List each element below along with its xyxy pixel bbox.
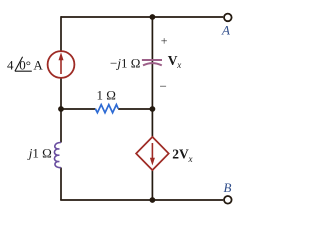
svg-text:2V: 2V	[172, 147, 189, 162]
resistor R1 zigzag	[95, 105, 118, 113]
wire bottom horizontal	[60, 199, 223, 201]
capacitor C1 bottom plate (curved)	[143, 63, 162, 65]
node junction middle-left	[58, 106, 64, 112]
node junction middle-right	[150, 106, 156, 112]
current source I1 arrow	[59, 52, 64, 74]
svg-text:1 Ω: 1 Ω	[97, 88, 116, 103]
wire left vertical middle	[60, 78, 62, 143]
svg-text:x: x	[176, 60, 181, 70]
label 4∠0° A	[7, 57, 43, 73]
wire middle horizontal	[61, 108, 152, 110]
capacitor C1 top plate	[142, 59, 162, 61]
node junction bottom	[150, 197, 156, 203]
svg-text:x: x	[188, 154, 193, 164]
svg-text:A: A	[221, 22, 230, 37]
wire top horizontal	[61, 16, 223, 18]
current source I1 circle	[48, 51, 75, 78]
svg-text:+: +	[161, 34, 168, 48]
svg-text:−: −	[160, 79, 167, 94]
dependent source arrow (down)	[150, 143, 155, 166]
terminal A circle	[224, 14, 232, 22]
svg-text:j1 Ω: j1 Ω	[27, 146, 52, 161]
terminal B circle	[224, 196, 232, 204]
svg-text:4: 4	[7, 57, 14, 72]
svg-text:B: B	[224, 180, 232, 195]
svg-text:0° A: 0° A	[19, 57, 43, 72]
inductor L1 coil	[54, 142, 61, 167]
svg-text:−j1 Ω: −j1 Ω	[110, 55, 140, 70]
node junction top	[150, 14, 156, 20]
wire middle vertical	[151, 17, 153, 137]
dependent source diamond	[136, 137, 169, 170]
wire left vertical lower	[60, 168, 62, 201]
wire left vertical upper	[60, 16, 62, 51]
wire middle vertical lower	[151, 170, 153, 201]
